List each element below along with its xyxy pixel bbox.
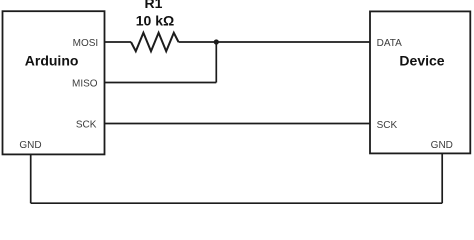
wire SCK [105,123,371,125]
svg-text:MISO: MISO [72,78,98,89]
wire MISO [105,82,217,84]
block Device [370,11,470,153]
wire junction down [215,42,217,83]
svg-text:SCK: SCK [76,120,97,131]
svg-text:GND: GND [431,140,453,151]
svg-text:SCK: SCK [377,120,398,131]
svg-text:Device: Device [399,52,444,68]
wire MOSI lead [105,41,132,43]
svg-text:DATA: DATA [377,38,403,49]
svg-text:10 kΩ: 10 kΩ [136,12,174,28]
svg-text:Arduino: Arduino [25,53,79,69]
resistor R1 [131,33,179,51]
wire GND left drop [30,155,32,204]
wire GND right rise [441,153,443,203]
svg-text:R1: R1 [145,0,163,11]
node junction dot [214,39,219,44]
svg-text:MOSI: MOSI [73,38,99,49]
block Arduino [3,11,105,154]
svg-text:GND: GND [19,140,41,151]
wire GND bottom [31,202,443,204]
wire R1 to DATA [179,41,371,43]
